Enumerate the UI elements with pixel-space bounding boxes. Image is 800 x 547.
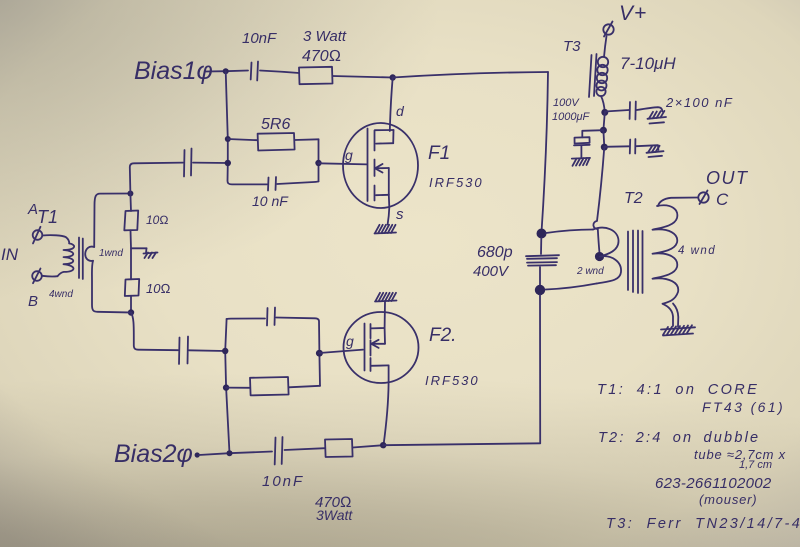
capacitor C4 input F2 [179,337,188,365]
wire blob to 680p top plate [540,238,542,254]
wire F1 source lead [388,195,390,225]
wire T3 rail down to T2 center tap with hop [593,147,604,253]
svg-text:1000μF: 1000μF [552,111,590,123]
node 680p top blob [537,229,547,239]
wire C3 to F1 gate node [193,162,228,164]
wire C2 to right rail [277,181,318,184]
ground T2 secondary [661,325,695,335]
wire node1 to capacitor C9 [605,110,629,112]
wire R6 to F2 drain node [353,445,384,447]
wire 680p bottom to Bias2 corner [539,295,541,443]
wire IN A to T1 primary [43,235,70,243]
node F1 drain junction [390,74,396,80]
ground F2 source top [375,293,397,302]
node F2 gate right [316,350,323,357]
transistor F2 gate bar [364,324,366,371]
inductor T3 coil 7-10uH [596,57,608,96]
resistor R1 470R 3W [299,67,333,84]
svg-text:10nF: 10nF [242,30,277,47]
transistor F2 body arrow [371,340,385,348]
svg-text:100V: 100V [553,97,580,109]
svg-text:d: d [396,103,405,119]
wire C9 to ground [637,107,663,111]
svg-text:g: g [346,333,354,349]
capacitor C6 10nF F2 [267,308,275,326]
wire F1 right rail [318,139,320,181]
inductor T3 core bars [589,54,597,97]
svg-text:V+: V+ [619,2,647,25]
wire node3 to capacitor C11 [604,145,629,148]
wire C6 to F2 right rail [276,318,320,386]
port IN terminal A [33,227,43,244]
wire F2 5R6 branch left [226,387,250,389]
wire T1 secondary top tap up to rail [94,194,130,248]
svg-text:Bias1φ: Bias1φ [134,57,213,85]
svg-text:2 wnd: 2 wnd [576,266,604,277]
transistor F1 channel dashes [374,131,376,201]
svg-text:F1: F1 [428,143,450,164]
capacitor C9 100nF upper [630,102,636,120]
capacitor C1 10nF [251,62,258,81]
transistor F1 drain hook [375,130,394,144]
transistor F1 source hook [376,168,389,195]
svg-text:3 Watt: 3 Watt [303,28,347,45]
node F1 gate right [315,160,321,166]
ground C10 [572,158,590,166]
svg-text:3Watt: 3Watt [316,507,353,523]
node Bias2 rail junction [227,450,233,456]
wire F1 5R6 branch left [228,139,258,140]
wire V+ to T3 [604,36,607,57]
wire C7 to R6 [285,448,326,450]
wire T2 secondary bottom to ground [673,304,678,327]
svg-text:Bias2φ: Bias2φ [114,440,193,468]
transistor F2 drain hook [371,364,389,366]
svg-text:680p: 680p [477,244,513,261]
wire Bias1 to C1 [205,71,248,72]
svg-text:IRF530: IRF530 [429,175,484,190]
resistor R5 5R6 lower [250,377,289,395]
node F2 gate input [222,348,228,354]
wire drain node to top-right corner [393,72,548,78]
ground F1 source [375,225,397,234]
transformer T2 primary 2wnd upper loop [593,228,619,257]
svg-text:T3: Ferr TN23/14/7-4: T3: Ferr TN23/14/7-4 [606,516,800,532]
wire R1 to drain node [333,76,393,78]
svg-text:T1: 4:1 on CORE: T1: 4:1 on CORE [597,382,759,398]
capacitor C11 100nF lower [630,139,636,154]
wire center tap to ground [131,247,147,249]
port V+ terminal [603,22,613,37]
wire C4 to F2 gate node [189,349,225,352]
wire Bias2 to C7 [199,452,272,456]
wire T1 secondary bottom tap [92,261,131,313]
wire F2 drain node to right corner [383,443,540,445]
wire R4 to bottom tap node [130,296,132,313]
port IN terminal B [32,269,42,284]
resistor R3 10R upper [124,211,138,231]
capacitor C7 10nF Bias2 [275,437,283,465]
svg-text:10nF: 10nF [262,473,304,490]
svg-text:470Ω: 470Ω [302,48,341,65]
wire node2 to electrolytic [582,130,603,137]
node F1 gate input [225,160,231,166]
ground C11 [647,146,664,157]
transformer T1 secondary 1wnd [85,247,94,261]
svg-text:10Ω: 10Ω [146,281,170,296]
node T2 center tap [595,252,604,261]
wire F2 left rail [225,319,229,453]
port OUT terminal C [698,191,708,205]
wire F1 left rail [226,71,267,184]
wire rail node1 to node2 [603,112,604,130]
svg-text:4wnd: 4wnd [49,289,73,300]
wire T2 primary return to 680p bottom [546,284,597,290]
svg-text:FT43 (61): FT43 (61) [702,399,785,415]
node 680p bottom blob [535,285,545,295]
wire T3 to rail node1 [601,96,605,112]
transistor F2 source hook [371,328,385,344]
resistor R6 470R 3W lower [325,439,353,457]
svg-text:T2: 2:4 on dubble: T2: 2:4 on dubble [598,430,760,446]
wire 680p bottom plate to blob [539,267,541,285]
svg-text:10Ω: 10Ω [146,213,169,227]
wire tap to R3 [129,194,132,212]
capacitor C3 input F1 [184,149,192,177]
resistor R2 5R6 upper [258,133,295,151]
svg-text:400V: 400V [473,263,510,280]
wire F1 5R6 branch right [295,138,319,141]
svg-text:s: s [396,206,404,223]
wire T1 primary to IN B [42,275,58,278]
node Bias1 rail top [223,68,229,74]
transistor F1 gate bar [367,129,369,202]
svg-text:7-10μH: 7-10μH [620,54,676,73]
svg-text:g: g [345,147,353,163]
node decoupling rail 3 [601,144,608,151]
transistor F2 channel dashes [370,324,372,371]
wire right side descending to 680p top [542,72,549,232]
svg-text:5R6: 5R6 [261,116,290,133]
wire F1 gate lead [319,163,368,164]
svg-text:10 nF: 10 nF [252,193,289,209]
transformer T1 core [79,238,83,280]
capacitor C2 10nF F1 [268,177,276,191]
transistor F1 IRF530 body [343,123,418,208]
node T1 top tap [127,191,133,197]
transformer T2 primary 2wnd lower loop [597,256,622,283]
capacitor C10 1000uF 100V [574,137,590,145]
node F2 drain junction [380,442,386,448]
svg-text:OUT: OUT [706,168,749,188]
svg-text:T1: T1 [37,207,58,227]
svg-text:T3: T3 [563,38,581,55]
node F1 5R6 left [225,136,231,142]
svg-text:B: B [28,293,38,310]
wire F1 drain lead [390,78,393,132]
wire R3 to R4 [130,230,133,279]
wire bottom rail down and right to C4 [131,313,178,351]
wire rail node2 to node3 [602,130,605,147]
svg-text:1,7 cm: 1,7 cm [739,459,772,471]
svg-text:623-2661102002: 623-2661102002 [655,475,772,492]
svg-text:4 wnd: 4 wnd [678,245,716,257]
wire T2 secondary top to OUT [658,198,698,207]
transformer T2 core [628,231,643,294]
resistor R4 10R lower [125,279,139,296]
wire F2 gate lead [319,350,363,353]
wire F2 10nF branch left [227,318,265,321]
wire tap rail up and right to C3 [130,163,183,194]
ground G8 between 10R resistors [144,248,158,258]
node T1 bottom tap [128,309,134,315]
node decoupling rail 1 [601,109,608,116]
svg-text:F2.: F2. [429,325,456,346]
wire C1 to R1 [260,71,299,74]
transformer T2 secondary 4wnd coil [653,205,679,326]
svg-text:2×100 nF: 2×100 nF [665,95,733,110]
wire 680p top to T2 primary [546,230,593,234]
node decoupling rail 2 [600,127,607,134]
node Bias2 wire start [195,452,200,457]
wire F2 5R6 branch right [289,386,320,388]
capacitor C8 680p 400V [526,255,559,265]
svg-text:IRF530: IRF530 [425,373,480,388]
svg-text:T2: T2 [624,190,643,207]
svg-text:IN: IN [1,245,19,264]
svg-text:(mouser): (mouser) [699,492,757,507]
node F2 5R6 left [223,384,229,390]
transformer T1 primary 4wnd coil [58,243,75,276]
wire C10 to ground [580,146,582,158]
svg-text:C: C [716,190,729,209]
wire F2 drain lead [384,365,389,445]
svg-text:1wnd: 1wnd [99,248,123,259]
wire C11 to ground [636,145,658,150]
wire F2 source lead [384,302,386,329]
transistor F1 body arrow [375,164,389,173]
transistor F2 IRF530 body [344,312,419,383]
ground C9 [648,111,667,124]
